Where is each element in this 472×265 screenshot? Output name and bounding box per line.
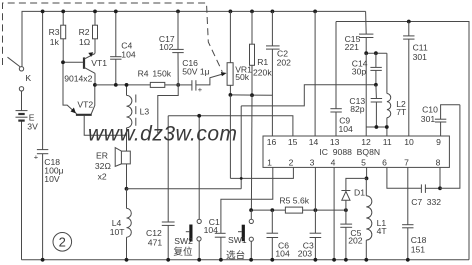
- svg-text:5: 5: [361, 157, 366, 167]
- svg-text:1Ω: 1Ω: [79, 37, 91, 47]
- svg-text:11: 11: [383, 137, 392, 147]
- wire tank bottom line to pin12 riser: [366, 126, 387, 128]
- capacitor C3: [310, 233, 322, 237]
- svg-text:7: 7: [404, 157, 409, 167]
- svg-text:SW1: SW1: [228, 235, 247, 245]
- wire pin5 node: [365, 167, 367, 178]
- wire pin2 line: [230, 167, 293, 178]
- capacitor C17: [172, 11, 183, 85]
- capacitor C5: [340, 210, 352, 260]
- node top rail junctions: [41, 10, 317, 14]
- svg-text:221: 221: [345, 42, 360, 52]
- node R1 bottom junction: [250, 93, 254, 97]
- svg-text:R2: R2: [79, 27, 90, 37]
- svg-text:301: 301: [421, 114, 436, 124]
- svg-text:1k: 1k: [50, 37, 60, 47]
- wire pin4 to ground rail: [333, 167, 335, 259]
- svg-text:104: 104: [121, 50, 136, 60]
- capacitor C7: [421, 184, 440, 193]
- svg-text:10V: 10V: [44, 174, 60, 184]
- wire VR1 bottom node line to C2/pin16: [230, 95, 272, 136]
- capacitor C4: [110, 11, 121, 85]
- resistor R4: [150, 82, 178, 87]
- svg-text:IC 9088 BQ8N: IC 9088 BQ8N: [319, 147, 380, 157]
- wire pin6 to C7: [387, 167, 422, 188]
- capacitor C6: [267, 210, 279, 260]
- capacitor C18b (151): [402, 167, 413, 259]
- svg-text:104: 104: [204, 225, 219, 235]
- svg-text:C18: C18: [411, 235, 427, 245]
- svg-text:301: 301: [413, 52, 428, 62]
- capacitor C13: [371, 85, 382, 127]
- svg-text:50V 1μ: 50V 1μ: [182, 67, 209, 77]
- wire C7 node to C10 corner bus: [440, 105, 460, 189]
- svg-text:203: 203: [298, 249, 313, 259]
- wire tank top line: [366, 52, 387, 54]
- svg-text:7T: 7T: [396, 107, 407, 117]
- svg-text:151: 151: [411, 245, 426, 255]
- svg-text:202: 202: [277, 57, 292, 67]
- svg-text:12: 12: [361, 137, 371, 147]
- node C7 pin8 junction: [438, 186, 442, 190]
- node VT1 collector junction: [93, 83, 97, 87]
- wire bottom ground rail: [22, 259, 470, 261]
- diode D1 (varactor): [341, 178, 366, 210]
- wire R1 node down to R5 line: [250, 95, 253, 210]
- resistor R2: [93, 11, 98, 53]
- node collector line junctions: [114, 83, 180, 87]
- speaker ER: [115, 148, 130, 189]
- wire pin15 line: [168, 116, 293, 136]
- svg-text:2: 2: [289, 157, 294, 167]
- svg-text:2: 2: [59, 235, 66, 250]
- svg-text:150k: 150k: [152, 69, 171, 79]
- svg-text:+: +: [34, 153, 39, 162]
- svg-text:R1: R1: [257, 57, 268, 67]
- svg-text:x2: x2: [98, 172, 107, 182]
- svg-text:9: 9: [436, 137, 441, 147]
- potentiometer VR1: [227, 11, 233, 95]
- switch SW1: [238, 210, 253, 260]
- wire left battery branch down to bottom rail: [21, 91, 23, 260]
- capacitor C2: [266, 11, 280, 95]
- svg-text:SW2: SW2: [174, 236, 193, 246]
- node speaker output junction: [125, 187, 129, 191]
- svg-text:K: K: [25, 73, 31, 83]
- node R5 line junctions: [249, 208, 348, 212]
- svg-text:15: 15: [288, 137, 298, 147]
- svg-text:1: 1: [267, 157, 272, 167]
- capacitor C1: [215, 233, 226, 259]
- svg-text:6: 6: [382, 157, 387, 167]
- switch SW2: [186, 116, 201, 260]
- node vertical A junction: [240, 177, 243, 180]
- inductor L3: [127, 85, 136, 151]
- capacitor C14: [370, 53, 381, 85]
- capacitor C10: [435, 105, 460, 136]
- svg-text:ER: ER: [96, 151, 108, 161]
- node VT1 base junction: [61, 60, 65, 64]
- resistor R5: [285, 207, 302, 213]
- wire vertical A link: [240, 106, 242, 189]
- svg-text:30p: 30p: [352, 66, 367, 76]
- svg-text:8: 8: [436, 157, 441, 167]
- svg-text:VT2: VT2: [77, 99, 93, 109]
- node SW2 feeder junction: [197, 114, 201, 118]
- capacitor C12: [162, 116, 175, 260]
- wire jog line to C14 bottom: [241, 85, 376, 106]
- svg-text:471: 471: [148, 238, 163, 248]
- svg-text:10: 10: [404, 137, 414, 147]
- svg-text:4: 4: [331, 157, 336, 167]
- wire top supply rail: [22, 11, 366, 66]
- resistor R1: [250, 11, 255, 95]
- dashed mechanical-link border (switch K to VR1): [3, 3, 223, 72]
- node ground rail junctions: [41, 258, 410, 262]
- node ground bus C11 junction: [407, 20, 411, 24]
- svg-text:C7: C7: [411, 197, 422, 207]
- svg-text:R4: R4: [138, 69, 149, 79]
- resistor R3: [61, 11, 66, 62]
- node C14 bottom junction: [374, 83, 378, 87]
- circled figure number 2: [53, 233, 72, 252]
- svg-text:50k: 50k: [235, 72, 250, 82]
- node tank top junctions: [364, 51, 377, 55]
- node L2 bottom pin11 junction: [385, 125, 389, 129]
- node VR1 bottom junction: [229, 93, 233, 97]
- wire speaker line: [127, 188, 242, 190]
- svg-text:104: 104: [339, 124, 354, 134]
- svg-text:4T: 4T: [377, 226, 388, 236]
- wire collector node to R4: [95, 84, 150, 86]
- svg-text:选台: 选台: [226, 249, 245, 261]
- svg-text:复位: 复位: [173, 246, 193, 258]
- switch K: [8, 57, 24, 91]
- svg-text:R5: R5: [279, 195, 290, 205]
- battery E: [16, 111, 28, 121]
- node pin5 junction: [365, 177, 369, 181]
- svg-text:32Ω: 32Ω: [95, 161, 112, 171]
- svg-text:13: 13: [330, 137, 340, 147]
- wire R4 node drop to lower area: [158, 85, 178, 133]
- capacitor C18 (electrolytic 100u): [34, 11, 49, 259]
- transistor VT1: [63, 52, 95, 85]
- svg-text:+: +: [198, 85, 203, 94]
- svg-text:D1: D1: [354, 188, 365, 198]
- svg-text:9014x2: 9014x2: [64, 74, 92, 84]
- wire pin14 riser from rail: [314, 11, 316, 136]
- svg-text:www.dz3w.com: www.dz3w.com: [88, 123, 238, 146]
- capacitor C11: [403, 22, 414, 136]
- inductor L2: [387, 53, 391, 136]
- wire C16 to VR1 wiper arrow: [196, 72, 227, 85]
- wire pin3 riser with C3: [314, 167, 316, 259]
- svg-text:332: 332: [427, 197, 442, 207]
- IC 9088 box: [263, 136, 449, 167]
- wire R5 tuning line: [251, 209, 346, 211]
- wire pin1 to C1: [221, 167, 273, 233]
- transistor VT2: [63, 62, 127, 135]
- svg-text:16: 16: [267, 137, 277, 147]
- svg-text:5.6k: 5.6k: [293, 195, 310, 205]
- svg-text:220k: 220k: [253, 67, 272, 77]
- inductor L1: [366, 178, 372, 259]
- svg-text:102: 102: [159, 42, 174, 52]
- inductor L4: [127, 189, 132, 260]
- svg-text:14: 14: [309, 137, 319, 147]
- capacitor C16 (electrolytic): [178, 80, 203, 94]
- svg-text:10T: 10T: [110, 227, 126, 237]
- svg-text:3: 3: [310, 157, 315, 167]
- wire VR1 chain down to pin2 line: [229, 95, 231, 178]
- wire right edge bus: [336, 22, 469, 260]
- svg-text:202: 202: [348, 236, 363, 246]
- node C13 bottom junction: [375, 125, 379, 129]
- wire pin8 riser: [439, 167, 441, 188]
- svg-text:104: 104: [275, 249, 290, 259]
- svg-text:VT1: VT1: [91, 58, 107, 68]
- svg-text:L3: L3: [140, 107, 150, 117]
- svg-text:3V: 3V: [27, 121, 38, 131]
- svg-text:R3: R3: [49, 27, 60, 37]
- svg-text:82p: 82p: [350, 104, 365, 114]
- wire pin12 riser: [365, 53, 367, 136]
- capacitor C9: [330, 22, 341, 137]
- capacitor C15: [359, 11, 373, 53]
